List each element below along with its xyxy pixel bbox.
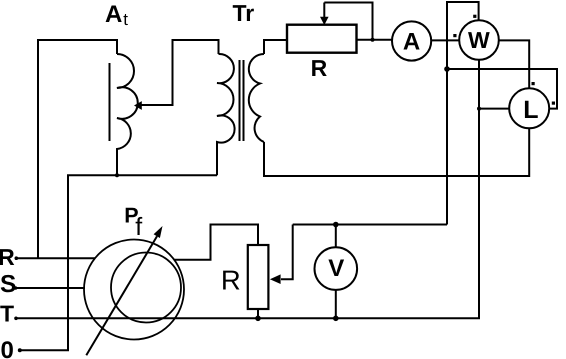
node: junction L left (477, 107, 481, 111)
svg-text:W: W (468, 27, 490, 53)
svg-text:L: L (523, 96, 538, 124)
ammeter A1 (392, 21, 431, 60)
svg-text:R: R (221, 264, 241, 295)
svg-text:V: V (328, 255, 344, 282)
node: rheostat loop junction (371, 38, 375, 42)
node: junction dot W voltage net (444, 66, 450, 72)
wire: 0 net up left side, At/Tr primary bottom return (20, 175, 217, 350)
wire: Tr secondary bottom return to L bottom (264, 128, 529, 176)
label At (105, 1, 128, 29)
wire: W voltage net to L right terminal (447, 69, 557, 109)
wire: R phase wire (17, 257, 95, 259)
svg-text:A: A (105, 1, 122, 28)
svg-text:Tr: Tr (233, 0, 255, 26)
svg-text:R: R (0, 244, 15, 270)
transformer Tr primary coil (217, 54, 235, 175)
svg-text:t: t (123, 10, 128, 29)
wire: T phase wire to W bottom vertical (16, 60, 479, 319)
wire: At top + left vertical (38, 40, 117, 258)
node: junction V bottom (333, 316, 339, 322)
autotransformer At coil (117, 54, 138, 175)
label Pf (124, 204, 142, 242)
node: wattmeter polarity dot top (473, 15, 476, 18)
svg-text:0: 0 (1, 337, 14, 359)
wire: rheostat to ammeter (357, 39, 393, 41)
node: 0 terminal dot (18, 348, 22, 352)
node: L polarity dot top (532, 82, 535, 85)
wire: R2 wiper arrow from V net (281, 225, 293, 280)
node: At bottom junction (115, 173, 119, 177)
wiper arrow to At from Tr primary (141, 40, 219, 105)
wire: S phase wire (16, 287, 85, 289)
wire: Pf to resistor R2 top (175, 225, 259, 260)
load meter L1 (509, 88, 549, 128)
svg-text:R: R (311, 55, 328, 81)
phase regulator Pf outer circle (84, 240, 184, 340)
autotransformer At core bar (109, 63, 111, 141)
transformer Tr core (239, 60, 241, 141)
svg-text:f: f (135, 213, 142, 241)
voltmeter V1 (315, 247, 358, 290)
phase regulator Pf adjustment arrow (86, 236, 157, 355)
wire: wattmeter voltage coil top loop down to V net (447, 2, 479, 225)
wire: resistor R2 bottom lead (257, 309, 259, 318)
transformer Tr secondary coil (249, 54, 264, 142)
wire: wattmeter to load L top (499, 40, 529, 88)
svg-text:A: A (403, 29, 420, 56)
wire: V measurement net (293, 224, 447, 226)
phase regulator Pf inner circle (111, 253, 181, 323)
node: wattmeter polarity dot left (453, 34, 456, 37)
wattmeter W1 (459, 20, 499, 60)
node: junction V top (333, 222, 339, 228)
wire: Tr secondary top lead to rheostat (264, 40, 287, 54)
rheostat R1 (top) body (287, 25, 357, 53)
wire: voltmeter top lead (335, 225, 337, 248)
wire: L left terminal to W bottom vertical (479, 108, 509, 110)
node: L polarity dot right (552, 102, 555, 105)
resistor R2 (bottom) body (248, 245, 269, 309)
wire: ammeter to wattmeter (431, 39, 459, 41)
svg-text:T: T (0, 301, 14, 327)
svg-text:S: S (0, 271, 16, 298)
node: junction resistor bottom (255, 316, 261, 322)
rheostat R1 wiper arrow and loop (324, 3, 372, 40)
wire: voltmeter bottom lead (335, 290, 337, 318)
